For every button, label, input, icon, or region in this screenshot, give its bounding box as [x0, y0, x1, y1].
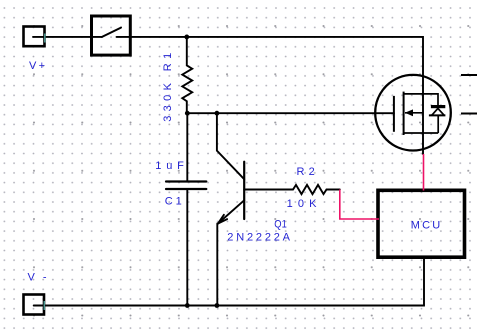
svg-text:1uF: 1uF — [155, 160, 184, 172]
svg-text:MCU: MCU — [411, 220, 441, 232]
svg-text:Q1: Q1 — [274, 218, 287, 230]
svg-text:10K: 10K — [287, 198, 318, 210]
